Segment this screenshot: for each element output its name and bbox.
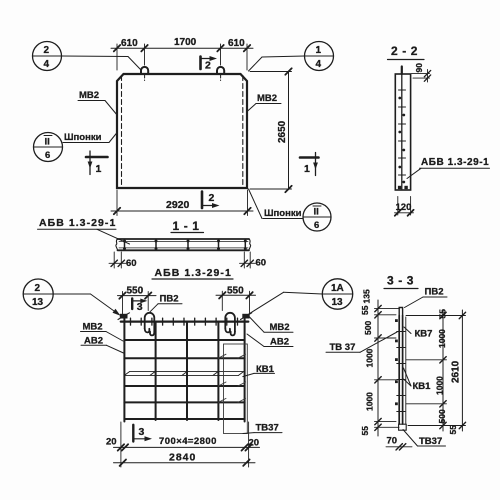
svg-text:Шпонки: Шпонки <box>64 132 102 143</box>
svg-text:Шпонки: Шпонки <box>264 208 302 219</box>
section 2-2 element body <box>395 74 410 190</box>
section 3-3 dimension 70 <box>386 436 412 451</box>
label KV1 section 3-3 <box>404 368 432 392</box>
svg-text:55: 55 <box>360 305 370 315</box>
svg-text:120: 120 <box>396 202 412 213</box>
svg-text:550: 550 <box>227 285 244 296</box>
dimension 60 left under section 1-1 <box>109 252 137 269</box>
svg-text:ПВ2: ПВ2 <box>160 294 179 305</box>
section 2-2 loop stub <box>401 67 403 75</box>
section 3-3 stirrup ticks <box>397 332 405 412</box>
svg-text:2650: 2650 <box>277 120 288 143</box>
svg-text:1700: 1700 <box>174 37 197 48</box>
label MB2 right <box>247 93 282 112</box>
svg-text:2: 2 <box>44 45 50 56</box>
label KV1 plan <box>243 364 275 377</box>
svg-text:90: 90 <box>414 63 424 73</box>
label PV2 plan <box>150 294 182 312</box>
svg-text:1000: 1000 <box>437 329 447 348</box>
svg-text:АБВ 1.3-29-1: АБВ 1.3-29-1 <box>421 157 489 168</box>
section 2-2 rebar dots <box>398 97 405 184</box>
svg-text:МВ2: МВ2 <box>79 90 99 101</box>
svg-text:500: 500 <box>363 321 373 335</box>
label AV2 plan right <box>247 334 293 348</box>
svg-text:АВ2: АВ2 <box>84 335 103 346</box>
label TV37 plan <box>243 422 282 433</box>
plan bottom dimension 20 / 700x4=2800 / 20 <box>106 422 260 467</box>
label KV7 section 3-3 <box>404 327 432 340</box>
svg-text:ТВ 37: ТВ 37 <box>330 342 356 353</box>
hook loop left plan <box>145 313 155 336</box>
section 3-3 right dimension line 2 overall 2610 <box>451 310 466 431</box>
hook loop right plan <box>225 313 235 336</box>
svg-text:20: 20 <box>249 437 260 448</box>
svg-text:550: 550 <box>127 286 144 297</box>
section 1-1 title <box>171 219 204 233</box>
anchor blob left corner <box>118 313 130 320</box>
svg-text:2: 2 <box>205 60 211 72</box>
dimension 2650 right <box>250 68 292 192</box>
plan grid vertical bars <box>124 316 244 422</box>
svg-text:3 - 3: 3 - 3 <box>387 274 414 288</box>
svg-text:1 - 1: 1 - 1 <box>173 219 200 233</box>
section 3-3 right dimension line 1 <box>435 309 459 435</box>
svg-text:II: II <box>45 137 50 148</box>
label TV37 section 3-3 left <box>326 332 397 353</box>
svg-text:МВ2: МВ2 <box>83 322 103 333</box>
svg-text:13: 13 <box>32 297 44 308</box>
svg-text:1: 1 <box>96 163 102 175</box>
dimension 60 right under section 1-1 <box>240 252 267 269</box>
section 3-3 top hook <box>399 308 402 316</box>
plan dimension 2840 <box>114 451 256 466</box>
svg-text:3: 3 <box>139 426 145 438</box>
panel hidden edge dashed right <box>242 76 244 188</box>
svg-text:6: 6 <box>314 220 319 231</box>
lifting loop right <box>217 67 224 81</box>
section 3-3 rebar dots <box>395 319 398 405</box>
svg-text:500: 500 <box>437 409 447 423</box>
plan TV37 channel thin rect <box>224 344 248 434</box>
svg-text:20: 20 <box>106 436 117 447</box>
label Shponki right with circle II/6 <box>249 189 332 231</box>
section 2-2 title <box>388 44 425 60</box>
label TV37 section 3-3 bottom <box>403 430 446 447</box>
svg-text:70: 70 <box>387 436 398 447</box>
svg-text:610: 610 <box>121 38 138 49</box>
dimension 610/1700/610 top <box>111 37 253 70</box>
svg-text:ТВ37: ТВ37 <box>256 422 279 433</box>
svg-text:1А: 1А <box>331 283 344 294</box>
label PV2 section 3-3 <box>405 287 448 308</box>
panel hidden edge dashed left <box>121 76 123 188</box>
svg-text:13: 13 <box>332 297 344 308</box>
callout circle 1/4 <box>249 42 334 72</box>
svg-text:55: 55 <box>360 426 370 436</box>
label Shponki left with circle II/6 <box>34 132 118 162</box>
section mark 2 bottom <box>202 192 220 209</box>
svg-text:КВ1: КВ1 <box>413 381 432 392</box>
svg-text:АВ2: АВ2 <box>270 337 289 348</box>
svg-text:3: 3 <box>137 301 143 313</box>
section 3-3 right extension lines <box>406 316 466 426</box>
section 2-2 label ABV 1.3-29-1 <box>407 157 490 179</box>
svg-text:2: 2 <box>209 192 215 204</box>
section 3-3 left extension lines <box>375 309 400 428</box>
anchor blob right corner <box>241 313 252 320</box>
plan step marks right <box>218 354 245 402</box>
label MB2 plan left <box>81 322 124 342</box>
svg-text:1000: 1000 <box>365 348 375 367</box>
svg-text:1000: 1000 <box>435 376 445 395</box>
section 2-2 dimension 90 <box>412 63 431 82</box>
section mark 3 bottom plan <box>133 425 152 442</box>
svg-text:ПВ2: ПВ2 <box>425 287 444 298</box>
dimension 550 left plan <box>118 286 157 314</box>
plan grid horizontal bars <box>124 340 244 419</box>
svg-text:1: 1 <box>316 45 322 56</box>
label MB2 left <box>78 90 118 116</box>
panel elevation outline <box>117 74 247 188</box>
svg-text:АБВ 1.3-29-1: АБВ 1.3-29-1 <box>39 217 116 229</box>
dimension 2920 bottom of panel <box>111 190 253 216</box>
svg-text:4: 4 <box>44 59 50 70</box>
svg-text:1000: 1000 <box>365 392 375 411</box>
svg-text:700×4=2800: 700×4=2800 <box>159 436 217 447</box>
plan grid cross ticks on top bar <box>131 318 238 325</box>
svg-text:1: 1 <box>304 163 310 175</box>
dimension 550 right plan <box>216 285 256 314</box>
callout circle 2/13 plan <box>23 279 120 316</box>
callout circle 1A/13 plan <box>248 279 353 315</box>
svg-text:135: 135 <box>362 289 372 303</box>
section mark 2 top <box>201 56 218 72</box>
lifting loop left <box>141 67 148 81</box>
svg-text:МВ2: МВ2 <box>270 322 290 333</box>
section 2-2 dimension 120 <box>395 197 414 216</box>
plan mesh shelf band KV1 <box>124 372 243 376</box>
section 3-3 element <box>399 316 406 425</box>
label AV2 plan left <box>81 335 124 353</box>
svg-text:55: 55 <box>437 309 447 319</box>
svg-text:4: 4 <box>316 59 322 70</box>
section mark 3 top plan <box>132 298 147 312</box>
section 2-2 bottom rebar dots <box>398 186 408 189</box>
svg-text:МВ2: МВ2 <box>257 93 277 104</box>
svg-text:ТВ37: ТВ37 <box>419 436 442 447</box>
svg-text:КВ7: КВ7 <box>415 329 433 340</box>
svg-text:6: 6 <box>45 150 50 161</box>
label ABV 1.3-29-1 centered below section 1-1 <box>152 267 233 279</box>
svg-text:2 - 2: 2 - 2 <box>391 44 418 58</box>
section 3-3 left dimension line <box>360 289 381 436</box>
plan grid top bar <box>121 321 249 323</box>
svg-text:2610: 2610 <box>451 360 462 383</box>
section 1-1 bar body <box>116 239 251 250</box>
svg-text:2840: 2840 <box>169 451 196 463</box>
svg-text:II: II <box>314 207 319 218</box>
label ABV 1.3-29-1 upper left <box>38 217 130 244</box>
section 2-2 stirrup ticks <box>399 90 406 175</box>
svg-text:АБВ 1.3-29-1: АБВ 1.3-29-1 <box>155 267 232 279</box>
svg-text:55: 55 <box>448 425 458 435</box>
section 3-3 bottom foot <box>399 424 407 430</box>
section 3-3 title <box>384 274 418 289</box>
svg-text:610: 610 <box>228 38 245 49</box>
section mark 1 left <box>86 151 108 175</box>
section mark 1 right <box>300 153 319 176</box>
svg-text:60: 60 <box>256 258 267 269</box>
svg-text:2: 2 <box>35 283 41 294</box>
label MB2 plan right <box>250 317 294 333</box>
callout circle 2/4 <box>33 42 142 71</box>
svg-text:2920: 2920 <box>166 199 190 211</box>
section 1-1 rebar ties <box>123 240 247 251</box>
svg-text:60: 60 <box>126 258 137 269</box>
